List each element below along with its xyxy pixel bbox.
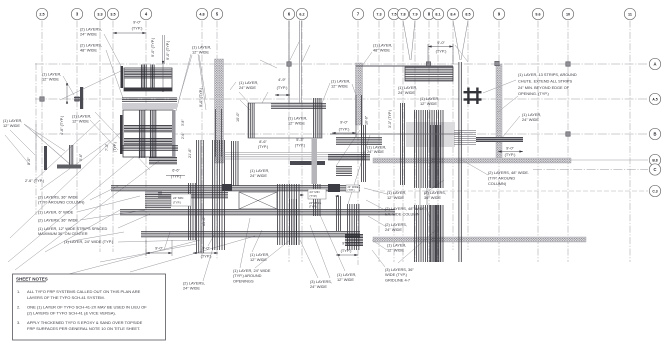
speckled band lower xyxy=(373,237,586,242)
label box 24wide grid7 xyxy=(346,185,359,192)
svg-text:B.8: B.8 xyxy=(652,159,657,163)
svg-text:12" WIDE: 12" WIDE xyxy=(72,119,89,124)
svg-text:(TYP.): (TYP.) xyxy=(295,144,306,148)
svg-text:24" WIDE: 24" WIDE xyxy=(239,85,256,90)
cluster band2 xyxy=(121,145,178,150)
crossing strips x313 xyxy=(313,184,320,216)
svg-text:(1) LAYER, 24" WIDE (TYP.): (1) LAYER, 24" WIDE (TYP.) xyxy=(64,239,114,244)
svg-text:11: 11 xyxy=(628,13,632,17)
gray block under band1 xyxy=(145,191,162,196)
dim 9-0 bottom2 xyxy=(193,246,218,259)
svg-text:9'-0": 9'-0" xyxy=(506,146,514,151)
B line dark segment xyxy=(330,133,460,135)
midright strip gap lines xyxy=(419,188,421,205)
label box 24min left xyxy=(171,194,191,206)
crossing strips x196 xyxy=(196,140,203,253)
svg-text:(TYP.): (TYP.) xyxy=(348,189,355,192)
dark block grid7 y234 xyxy=(345,234,363,245)
bundle grid7 low xyxy=(347,204,359,250)
midright vertical strips lower xyxy=(414,205,443,262)
svg-text:7.3: 7.3 xyxy=(376,13,381,17)
spine band y209 xyxy=(120,209,395,214)
svg-text:COLUMN): COLUMN) xyxy=(488,181,507,186)
svg-text:9'-0": 9'-0" xyxy=(133,20,141,25)
right grid bubbles xyxy=(649,58,660,196)
svg-text:6'-6": 6'-6" xyxy=(172,169,180,173)
svg-text:9'-0": 9'-0" xyxy=(155,246,163,251)
svg-text:3.5: 3.5 xyxy=(110,13,115,17)
svg-text:65'-0": 65'-0" xyxy=(202,216,206,226)
cluster lower strips xyxy=(139,150,144,158)
midright strip left xyxy=(400,103,404,185)
svg-text:ALL TYFO FRP SYSTEMS CALLED OU: ALL TYFO FRP SYSTEMS CALLED OUT ON THIS … xyxy=(27,289,141,294)
opening rect grid6 xyxy=(248,98,326,138)
svg-text:(1) LAYER, 6" WIDE: (1) LAYER, 6" WIDE xyxy=(38,210,74,215)
svg-text:9.6: 9.6 xyxy=(535,13,540,17)
svg-text:24" WIDE: 24" WIDE xyxy=(398,90,415,95)
svg-text:48" WIDE: 48" WIDE xyxy=(80,48,97,53)
svg-text:9'-0": 9'-0" xyxy=(27,157,31,165)
svg-text:(2) LAYERS, 48" WIDE.: (2) LAYERS, 48" WIDE. xyxy=(488,170,529,175)
svg-text:10'-0": 10'-0" xyxy=(236,112,240,122)
cluster mid block xyxy=(120,110,176,157)
svg-text:(TYP.): (TYP.) xyxy=(113,142,117,152)
dark block band1 x222 xyxy=(222,184,232,191)
crossing strips x336 low xyxy=(336,196,340,231)
dark bar mid xyxy=(290,161,325,165)
svg-text:APPLY THICKENED TYFO S EPOXY &: APPLY THICKENED TYFO S EPOXY & SAND OVER… xyxy=(27,320,143,325)
light band y152 xyxy=(215,152,366,159)
svg-text:9'-0": 9'-0" xyxy=(340,120,348,125)
crossing strips x210 xyxy=(212,140,224,250)
speckled strip grid 9 xyxy=(496,64,502,161)
svg-text:(TYP.): (TYP.) xyxy=(173,201,181,205)
dim 9-0 bottom3 xyxy=(336,241,358,257)
svg-text:9'-0" (TYP.): 9'-0" (TYP.) xyxy=(151,37,155,57)
svg-text:24" MIN. BEYOND EDGE OF: 24" MIN. BEYOND EDGE OF xyxy=(518,85,570,90)
horizontal grid lines xyxy=(35,64,648,191)
svg-text:12" WIDE: 12" WIDE xyxy=(288,121,305,126)
svg-text:ONE (1) LAYER OF TYFO SCH-41-2: ONE (1) LAYER OF TYFO SCH-41-2X MAY BE U… xyxy=(27,305,147,310)
svg-text:7.8: 7.8 xyxy=(400,13,405,17)
svg-text:24" WIDE: 24" WIDE xyxy=(385,227,402,232)
svg-text:3'-8": 3'-8" xyxy=(181,120,185,126)
svg-text:8.1: 8.1 xyxy=(435,13,440,17)
speckled strip grid 5 xyxy=(215,59,224,163)
svg-text:3.: 3. xyxy=(17,320,20,325)
midright dark sub strips upper xyxy=(430,125,440,188)
column face lines grid6 xyxy=(288,21,290,104)
spine band y192 xyxy=(158,192,228,197)
svg-text:(TYP.): (TYP.) xyxy=(436,49,447,54)
small dim arrows band xyxy=(300,194,304,196)
crossing strips x277 xyxy=(277,184,299,245)
svg-text:9'-0": 9'-0" xyxy=(437,40,445,45)
cluster band1 xyxy=(122,98,177,101)
speckled band B.8 xyxy=(373,158,571,163)
svg-text:24" WIDE: 24" WIDE xyxy=(522,117,539,122)
svg-text:(TYP.): (TYP.) xyxy=(171,175,182,179)
svg-text:12" WIDE: 12" WIDE xyxy=(387,195,404,200)
svg-text:24" WIDE: 24" WIDE xyxy=(80,32,97,37)
crossing strips x188 xyxy=(188,183,195,240)
svg-text:LAYERS OF THE TYFO SCH-41 SYST: LAYERS OF THE TYFO SCH-41 SYSTEM. xyxy=(27,295,105,300)
midright gray block xyxy=(406,122,455,147)
node markers xyxy=(40,61,570,136)
svg-text:7'-3": 7'-3" xyxy=(105,143,109,151)
svg-text:OPENINGS: OPENINGS xyxy=(233,278,254,283)
cluster grid3.3-4 top block xyxy=(121,61,173,92)
midright vertical strips upper xyxy=(414,110,443,188)
svg-text:CHUTE. EXTEND ALL STRIPS: CHUTE. EXTEND ALL STRIPS xyxy=(518,78,573,83)
svg-text:4.8: 4.8 xyxy=(199,13,204,17)
dim 6-6 typ xyxy=(171,169,182,179)
leader lines xyxy=(5,34,520,281)
spine small block xyxy=(145,194,171,207)
svg-text:24" WIDE: 24" WIDE xyxy=(183,286,200,291)
dark block band1 x328 xyxy=(328,184,340,192)
svg-text:A.5: A.5 xyxy=(652,98,657,102)
midright band1 xyxy=(336,137,382,144)
svg-text:9'-0": 9'-0" xyxy=(202,246,210,251)
dim 6-6 line xyxy=(166,174,185,176)
svg-text:(TYP.): (TYP.) xyxy=(339,127,350,132)
svg-text:A: A xyxy=(654,62,657,67)
svg-text:16'-6": 16'-6" xyxy=(365,115,369,125)
svg-text:7.9: 7.9 xyxy=(412,13,417,17)
cluster small block xyxy=(149,157,177,163)
svg-text:24" WIDE: 24" WIDE xyxy=(310,284,327,289)
svg-text:12" WIDE: 12" WIDE xyxy=(250,257,267,262)
svg-text:24" WIDE: 24" WIDE xyxy=(250,173,267,178)
svg-text:48" WIDE: 48" WIDE xyxy=(373,48,390,53)
svg-text:12" WIDE: 12" WIDE xyxy=(331,84,348,89)
svg-text:2'-6": 2'-6" xyxy=(181,133,185,139)
crossing strips x231 xyxy=(231,141,238,186)
svg-text:C: C xyxy=(654,167,657,172)
svg-text:(TYP.): (TYP.) xyxy=(310,194,318,198)
svg-text:3'-3" (TYP.): 3'-3" (TYP.) xyxy=(388,110,392,128)
svg-text:OPENING. (TYP.): OPENING. (TYP.) xyxy=(518,91,550,96)
svg-text:24" MIN: 24" MIN xyxy=(173,196,183,200)
svg-text:(TYP.): (TYP.) xyxy=(277,85,288,90)
svg-text:EA. SIDE COLUMN: EA. SIDE COLUMN xyxy=(385,211,420,216)
dim 9-0 top left xyxy=(113,20,146,35)
svg-text:(TYP. AROUND COLUMN): (TYP. AROUND COLUMN) xyxy=(38,200,85,205)
dim 8-6 typ xyxy=(258,140,269,149)
svg-text:2.5: 2.5 xyxy=(39,13,44,17)
svg-text:(2) LAYERS, 36" WIDE: (2) LAYERS, 36" WIDE xyxy=(38,218,78,223)
right dark bar xyxy=(476,137,523,142)
vertical grid lines xyxy=(42,21,630,266)
svg-text:(TYP.): (TYP.) xyxy=(309,205,317,209)
top block grid8 xyxy=(356,66,453,81)
svg-text:GRIDLINE 4-7: GRIDLINE 4-7 xyxy=(385,277,410,282)
svg-text:(2) LAYERS, 48" WIDE: (2) LAYERS, 48" WIDE xyxy=(385,206,425,211)
sheet notes box xyxy=(13,274,166,340)
svg-text:12" WIDE: 12" WIDE xyxy=(387,248,404,253)
column strip x458 xyxy=(459,62,461,262)
svg-text:5'-3": 5'-3" xyxy=(296,138,304,142)
crossing strips x289 low xyxy=(289,199,296,245)
left boundary line xyxy=(35,63,37,215)
svg-text:36" WIDE: 36" WIDE xyxy=(424,195,441,200)
svg-text:9'-0": 9'-0" xyxy=(342,241,350,246)
svg-text:SHEET NOTES: SHEET NOTES xyxy=(16,277,48,282)
svg-text:2'-6" (TYP.): 2'-6" (TYP.) xyxy=(25,179,45,183)
svg-text:12" WIDE: 12" WIDE xyxy=(3,123,20,128)
column bar grid3 xyxy=(74,87,83,109)
svg-text:6.2: 6.2 xyxy=(299,13,304,17)
svg-text:(TYP. AROUND: (TYP. AROUND xyxy=(488,176,515,181)
svg-text:4'-6" (TYP.): 4'-6" (TYP.) xyxy=(60,115,64,135)
bubble leader V 8.4 8.5 xyxy=(453,21,460,61)
svg-text:12" WIDE: 12" WIDE xyxy=(42,77,59,82)
dim 4-9 grid6 xyxy=(275,77,290,96)
dim 5-3 typ xyxy=(295,138,306,148)
column strip grid6.2 xyxy=(312,138,318,184)
dim 9-0 grid7 xyxy=(332,120,356,135)
svg-text:24" WIDE: 24" WIDE xyxy=(367,149,384,154)
svg-text:8.5: 8.5 xyxy=(465,13,470,17)
svg-text:(2) LAYERS OF TYFO SCH-41 (& V: (2) LAYERS OF TYFO SCH-41 (& VICE VERSA)… xyxy=(27,310,116,315)
svg-text:(TYP.): (TYP.) xyxy=(258,145,269,149)
label box 24min right xyxy=(308,189,326,209)
svg-text:9'-0" (TYP.): 9'-0" (TYP.) xyxy=(166,40,170,60)
svg-text:FRP SURFACES PER GENERAL NOTE: FRP SURFACES PER GENERAL NOTE 10 ON TITL… xyxy=(27,326,140,331)
svg-text:5'-6": 5'-6" xyxy=(79,153,83,161)
svg-text:21'-6": 21'-6" xyxy=(188,148,192,158)
block grid7 y166 xyxy=(336,166,352,175)
svg-text:B: B xyxy=(654,132,657,137)
spine band y184 xyxy=(111,185,360,190)
svg-text:(1) LAYER, 13 STRIPS, AROUND: (1) LAYER, 13 STRIPS, AROUND xyxy=(518,72,577,77)
spine band y231 xyxy=(141,231,360,236)
svg-text:C.3: C.3 xyxy=(652,190,657,194)
midright dark sub strips lower xyxy=(430,205,440,262)
svg-text:10: 10 xyxy=(566,13,570,17)
column detail left xyxy=(36,83,81,170)
dim 9-0 grid8 top xyxy=(428,40,453,64)
svg-text:7.5: 7.5 xyxy=(391,13,396,17)
midright gray block2 xyxy=(454,130,476,144)
svg-text:4'-9": 4'-9" xyxy=(278,77,286,82)
dim 9-0 bottom1 xyxy=(146,240,172,256)
svg-text:(TYP.): (TYP.) xyxy=(341,248,352,253)
svg-text:12" WIDE: 12" WIDE xyxy=(192,50,209,55)
svg-text:(TYP.): (TYP.) xyxy=(132,26,143,31)
bubble leader V 7.8 7.9 xyxy=(403,21,410,61)
midright band2 xyxy=(328,154,370,159)
svg-text:8'-6": 8'-6" xyxy=(259,140,267,144)
svg-text:(TYP.): (TYP.) xyxy=(505,152,516,157)
chute hash symbol xyxy=(464,88,482,105)
box with X xyxy=(239,192,277,209)
svg-text:12" WIDE: 12" WIDE xyxy=(337,277,354,282)
svg-text:3.3: 3.3 xyxy=(97,13,102,17)
column face lines grid4 xyxy=(162,35,164,64)
svg-text:9'-0" (TYP.): 9'-0" (TYP.) xyxy=(199,87,203,107)
speckled strip grid 7 xyxy=(356,63,363,125)
svg-text:(TYP.): (TYP.) xyxy=(201,254,212,259)
dim 9-0 right xyxy=(498,146,523,158)
svg-text:MAXIMUM 36" ON CENTER: MAXIMUM 36" ON CENTER xyxy=(38,231,88,236)
top grid bubbles xyxy=(36,8,635,19)
svg-text:1.: 1. xyxy=(17,289,20,294)
svg-text:12" WIDE: 12" WIDE xyxy=(420,101,437,106)
svg-text:2.: 2. xyxy=(17,305,20,310)
crossing strips x361 xyxy=(361,125,365,182)
